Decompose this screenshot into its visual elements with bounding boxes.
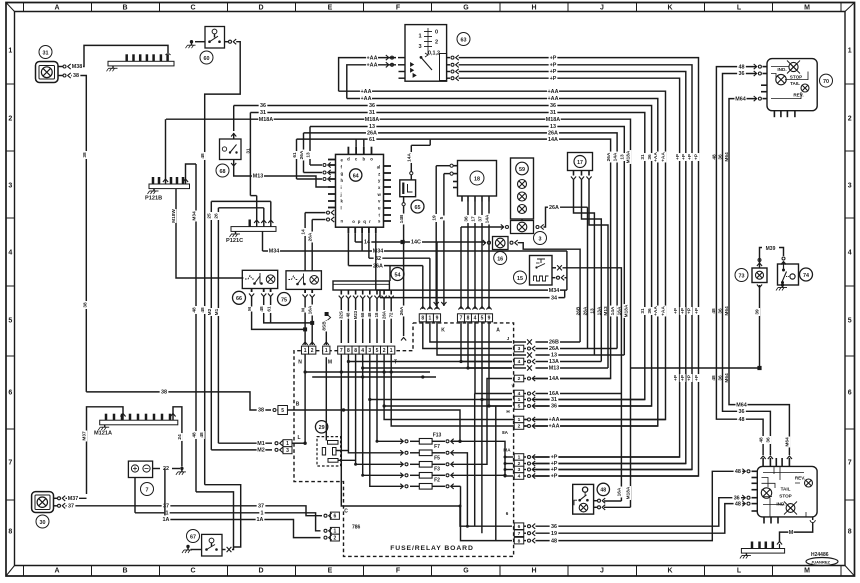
wire M39 bracket	[760, 248, 763, 263]
svg-text:M2: M2	[207, 308, 213, 315]
svg-text:M34: M34	[192, 211, 198, 221]
bar 54 riser to 26A	[389, 266, 391, 281]
board internal fuse outputs	[451, 453, 467, 526]
connector 64 right pins	[384, 165, 392, 167]
svg-text:38: 38	[258, 408, 264, 414]
svg-text:4: 4	[848, 249, 852, 256]
svg-text:48: 48	[200, 153, 206, 159]
wire from board connector 1 to M1 junction	[304, 354, 306, 443]
cluster 69 bottom pins	[763, 517, 765, 524]
board connector B (5)	[278, 406, 288, 415]
svg-text:N: N	[298, 360, 302, 366]
svg-text:M2: M2	[257, 448, 265, 454]
svg-text:2: 2	[518, 376, 521, 382]
svg-text:u: u	[378, 206, 381, 211]
svg-text:B: B	[122, 5, 127, 12]
ignition switch 63 pins	[398, 57, 405, 59]
wire to board connector M1	[325, 312, 329, 316]
wire 48 from switch 60 long vertical	[205, 42, 241, 485]
svg-text:o: o	[370, 157, 373, 162]
svg-text:38: 38	[73, 73, 79, 79]
cluster 70 pins	[763, 66, 768, 68]
svg-text:65: 65	[415, 205, 421, 211]
svg-text:6: 6	[8, 389, 12, 396]
svg-text:B: B	[122, 567, 127, 574]
svg-text:+P: +P	[694, 153, 700, 160]
svg-text:39: 39	[755, 309, 761, 315]
svg-text:8: 8	[354, 348, 357, 354]
vertical 26A from lamp 3	[587, 207, 589, 348]
svg-text:M64: M64	[785, 437, 791, 447]
svg-text:26A: 26A	[399, 306, 405, 315]
svg-text:+P: +P	[681, 153, 687, 160]
svg-text:68: 68	[220, 169, 226, 175]
wires from verticals to switch 67	[196, 492, 234, 550]
svg-text:68: 68	[360, 312, 365, 317]
svg-text:+P: +P	[675, 153, 681, 160]
rear lamp cluster 69	[757, 466, 817, 517]
svg-text:E: E	[328, 567, 333, 574]
svg-text:JUANREZ: JUANREZ	[811, 559, 830, 564]
svg-text:d: d	[347, 157, 350, 162]
svg-text:+AA: +AA	[653, 306, 659, 316]
svg-text:M34: M34	[269, 249, 280, 255]
svg-text:1: 1	[429, 316, 432, 322]
fuse F2	[405, 485, 408, 488]
bus +AA2	[347, 99, 658, 427]
right bundle rotated labels top	[606, 152, 612, 163]
svg-text:48: 48	[739, 64, 745, 70]
ground bar P121C	[231, 227, 276, 232]
svg-text:3: 3	[518, 346, 521, 352]
svg-text:48: 48	[259, 306, 265, 312]
rear lamp cluster 70	[767, 59, 817, 111]
svg-text:M18A: M18A	[625, 486, 631, 499]
wire 14 / 14C to lamp 16	[354, 233, 356, 242]
wire 34	[380, 297, 565, 299]
board right connector rows	[514, 341, 526, 343]
svg-text:C: C	[344, 509, 348, 515]
svg-text:60: 60	[204, 56, 210, 62]
svg-text:M13: M13	[549, 366, 560, 372]
svg-text:36: 36	[739, 409, 745, 415]
lamp 31 (side repeater)	[39, 46, 52, 59]
svg-text:F2: F2	[434, 478, 440, 484]
wire M18W from P121B	[176, 189, 243, 278]
wires to cluster 69 left pins	[536, 471, 746, 540]
svg-text:+P: +P	[680, 374, 686, 381]
board top connectors row K/A	[419, 314, 426, 322]
wire 36 right	[723, 74, 771, 456]
svg-text:26: 26	[214, 213, 220, 219]
svg-text:F: F	[396, 5, 401, 12]
bus 13	[310, 127, 624, 356]
svg-text:1: 1	[390, 348, 393, 354]
svg-text:31: 31	[640, 308, 646, 314]
svg-text:37: 37	[68, 504, 74, 510]
svg-text:+P: +P	[687, 153, 693, 160]
board internal verticals right	[474, 394, 476, 527]
connector 64 (instrument cluster)	[336, 154, 384, 227]
ground bar P121B	[149, 184, 190, 189]
ground bar M121A	[100, 420, 178, 425]
svg-text:P121C: P121C	[226, 238, 243, 244]
svg-text:26A: 26A	[373, 263, 383, 269]
svg-text:7: 7	[146, 487, 149, 493]
svg-text:+P: +P	[673, 374, 679, 381]
svg-text:6: 6	[334, 514, 337, 520]
svg-text:7: 7	[848, 459, 852, 466]
wire M64 right	[729, 99, 789, 455]
svg-text:+P: +P	[687, 374, 693, 381]
right bundle rotated labels middle	[575, 306, 581, 317]
board top connectors row N/M/T	[301, 346, 308, 354]
svg-text:+AA: +AA	[361, 89, 372, 95]
svg-text:64: 64	[353, 173, 359, 179]
svg-text:FUSE/RELAY BOARD: FUSE/RELAY BOARD	[390, 545, 474, 552]
svg-text:1: 1	[334, 529, 337, 535]
board internal wiring	[348, 354, 400, 453]
svg-text:786: 786	[352, 524, 361, 530]
svg-text:37: 37	[478, 216, 484, 222]
svg-text:M37: M37	[68, 496, 79, 502]
svg-text:M34: M34	[549, 288, 560, 294]
connector 17	[568, 153, 593, 171]
right bundle rotated labels lower	[673, 374, 679, 382]
svg-text:2: 2	[311, 348, 314, 354]
svg-text:M18A: M18A	[365, 117, 379, 123]
bus M18A	[166, 119, 631, 507]
svg-text:REV.: REV.	[793, 92, 803, 97]
svg-text:70: 70	[823, 79, 829, 85]
svg-text:G: G	[463, 567, 469, 574]
connector bar 54	[391, 268, 404, 281]
svg-text:h: h	[341, 178, 344, 183]
svg-text:36: 36	[647, 308, 653, 314]
svg-text:37: 37	[163, 504, 169, 510]
svg-text:7: 7	[518, 531, 521, 537]
svg-text:16: 16	[497, 256, 503, 262]
svg-text:+P: +P	[550, 76, 557, 82]
svg-text:14A: 14A	[548, 137, 558, 143]
svg-text:2: 2	[383, 348, 386, 354]
relay 66	[242, 270, 277, 288]
svg-text:M: M	[804, 567, 810, 574]
svg-text:25: 25	[207, 213, 213, 219]
svg-text:p: p	[358, 219, 361, 224]
svg-text:STOP: STOP	[779, 494, 791, 499]
svg-text:18: 18	[474, 176, 480, 182]
svg-text:0,1,2: 0,1,2	[428, 51, 440, 57]
svg-text:61: 61	[266, 306, 272, 312]
svg-text:q: q	[363, 219, 366, 224]
svg-text:+AA: +AA	[548, 89, 559, 95]
svg-text:3: 3	[418, 44, 421, 50]
svg-text:8: 8	[467, 316, 470, 322]
svg-text:36: 36	[766, 437, 772, 443]
wire M38 to ground bar	[71, 45, 168, 66]
wire 1A	[165, 520, 321, 538]
svg-text:48: 48	[735, 469, 741, 475]
svg-text:13: 13	[620, 154, 626, 160]
board wire from connector B	[288, 410, 461, 441]
svg-text:+P: +P	[680, 307, 686, 314]
svg-text:l: l	[341, 205, 342, 210]
svg-text:b: b	[362, 157, 365, 162]
svg-text:M: M	[804, 5, 810, 12]
wire 14A riser from diode 65 to bus 61	[410, 175, 412, 180]
board internal fan-out to right rows	[363, 367, 512, 369]
relay 29	[315, 421, 327, 433]
svg-text:C: C	[190, 5, 195, 12]
switch 68 (D2)	[220, 139, 242, 160]
svg-text:37: 37	[258, 504, 264, 510]
svg-text:M39: M39	[766, 246, 776, 252]
svg-text:1: 1	[418, 34, 421, 40]
svg-text:M18A: M18A	[626, 150, 632, 163]
svg-text:48: 48	[600, 488, 606, 494]
svg-text:1: 1	[848, 47, 852, 54]
svg-text:E: E	[328, 5, 333, 12]
switch 48 (reverse light sw)	[573, 484, 594, 514]
svg-text:F13: F13	[433, 433, 442, 439]
svg-text:7: 7	[8, 459, 12, 466]
svg-text:8: 8	[518, 538, 521, 544]
svg-text:30: 30	[40, 520, 46, 526]
svg-text:36: 36	[369, 103, 375, 109]
svg-text:48: 48	[191, 432, 197, 438]
svg-text:1A: 1A	[257, 517, 264, 523]
svg-text:26A: 26A	[549, 205, 559, 211]
svg-text:j: j	[340, 192, 342, 197]
svg-text:+AA: +AA	[653, 152, 659, 162]
lamp 30 (licence plate)	[32, 492, 54, 513]
svg-text:14A: 14A	[610, 306, 616, 315]
svg-text:5: 5	[376, 348, 379, 354]
svg-text:8: 8	[8, 528, 12, 535]
svg-text:63: 63	[461, 37, 467, 43]
board +P feed	[451, 441, 505, 476]
svg-text:38: 38	[82, 152, 88, 158]
svg-text:M18A: M18A	[546, 117, 560, 123]
svg-text:+AA: +AA	[548, 96, 559, 102]
svg-text:36: 36	[551, 404, 557, 410]
bus +P4	[459, 78, 680, 457]
M121A left riser	[122, 412, 124, 420]
svg-text:n: n	[341, 218, 344, 223]
svg-text:1: 1	[304, 348, 307, 354]
relay 66 pins	[251, 289, 253, 293]
wire M1 vertical to connector 1	[217, 208, 219, 443]
labels bottom right corner wires	[735, 401, 747, 407]
svg-text:1: 1	[325, 348, 328, 354]
svg-text:TAIL: TAIL	[790, 81, 800, 86]
svg-text:17: 17	[471, 216, 477, 222]
svg-text:36: 36	[739, 71, 745, 77]
svg-text:14A: 14A	[485, 214, 491, 223]
svg-text:48: 48	[346, 312, 351, 317]
svg-text:74: 74	[803, 273, 809, 279]
wire 39 from lamp 73	[759, 285, 761, 368]
wire 48 right	[716, 67, 763, 455]
wire M34 lower run	[566, 251, 568, 290]
wire M34	[361, 233, 363, 251]
bus +AA1	[339, 91, 666, 419]
svg-text:IND.: IND.	[777, 67, 786, 72]
svg-text:M: M	[301, 308, 307, 312]
wire 38 long vertical	[71, 76, 86, 392]
svg-text:1: 1	[286, 441, 289, 447]
svg-text:MA: MA	[503, 448, 511, 453]
wire +AA upper pair to switch 63	[339, 58, 396, 92]
svg-text:17: 17	[577, 160, 583, 166]
svg-text:+P: +P	[694, 374, 700, 381]
svg-text:8: 8	[421, 316, 424, 322]
svg-text:13: 13	[306, 152, 312, 158]
svg-text:5: 5	[8, 317, 12, 324]
svg-text:B: B	[296, 402, 300, 408]
svg-text:P121B: P121B	[145, 196, 162, 202]
relay 18 bottom pins	[461, 196, 463, 202]
svg-text:al: al	[377, 164, 381, 169]
svg-text:48: 48	[759, 437, 765, 443]
svg-text:H: H	[531, 5, 536, 12]
svg-text:73: 73	[739, 273, 745, 279]
svg-text:2: 2	[8, 115, 12, 122]
battery unit 7	[128, 461, 152, 477]
bus +P3	[459, 72, 686, 464]
svg-text:29: 29	[319, 425, 325, 431]
fuse F13	[405, 440, 408, 443]
svg-text:6: 6	[848, 389, 852, 396]
svg-text:3: 3	[368, 348, 371, 354]
svg-text:K: K	[667, 5, 672, 12]
svg-text:4: 4	[518, 359, 521, 365]
svg-text:A: A	[496, 328, 500, 334]
svg-text:+AA: +AA	[549, 424, 560, 430]
svg-text:L: L	[297, 435, 300, 441]
svg-text:38: 38	[83, 302, 89, 308]
svg-text:19: 19	[551, 531, 557, 537]
svg-text:22: 22	[163, 466, 169, 472]
svg-text:+P: +P	[673, 307, 679, 314]
relay 75	[286, 271, 321, 290]
svg-text:M: M	[789, 530, 794, 536]
svg-text:26A: 26A	[299, 150, 305, 159]
wire M13 from switch 68 to connector 64	[234, 167, 328, 188]
diode box 65	[400, 180, 416, 197]
svg-text:34: 34	[551, 295, 557, 301]
svg-text:+P: +P	[687, 307, 693, 314]
ground bar bottom right	[741, 549, 784, 554]
svg-text:REV.: REV.	[795, 476, 805, 481]
wire 14B arrow into board	[401, 338, 406, 341]
svg-text:4: 4	[8, 249, 12, 256]
fuse F5	[405, 463, 408, 466]
svg-text:31: 31	[43, 50, 49, 56]
svg-text:L: L	[737, 5, 742, 12]
fuse F3	[405, 474, 408, 477]
wire 22 to ground	[153, 468, 160, 470]
svg-text:3: 3	[8, 182, 12, 189]
wire 14 drop to board	[436, 242, 438, 309]
svg-text:14B: 14B	[399, 214, 405, 223]
svg-text:+AA: +AA	[661, 306, 667, 316]
svg-text:+AA: +AA	[367, 55, 378, 61]
P121C riser links	[256, 196, 258, 227]
svg-text:H: H	[531, 567, 536, 574]
fuse/relay board outline	[294, 323, 514, 557]
svg-text:5: 5	[848, 317, 852, 324]
wire 38 bottom run to connector B	[86, 392, 271, 410]
svg-text:16A: 16A	[308, 305, 314, 314]
svg-text:3: 3	[848, 182, 852, 189]
svg-text:7: 7	[460, 316, 463, 322]
svg-text:M121A: M121A	[94, 431, 112, 437]
svg-text:59: 59	[519, 167, 525, 173]
bus drops to connector 64 left pins	[309, 127, 311, 166]
svg-text:36: 36	[464, 216, 470, 222]
svg-text:T: T	[394, 360, 397, 366]
cluster 70 internal wires	[771, 67, 808, 99]
svg-text:38: 38	[161, 390, 167, 396]
svg-text:32S: 32S	[338, 311, 343, 319]
svg-text:72: 72	[388, 312, 393, 317]
svg-text:TAIL: TAIL	[781, 487, 791, 492]
svg-text:61: 61	[292, 152, 298, 158]
svg-text:4: 4	[361, 348, 364, 354]
wire 26A to board	[347, 233, 349, 265]
svg-text:g: g	[341, 171, 344, 176]
svg-text:F3: F3	[434, 467, 440, 473]
svg-text:J: J	[600, 567, 604, 574]
svg-text:4: 4	[474, 316, 477, 322]
wire 26A from connector 64 to relay 75	[312, 219, 325, 221]
bus 31	[250, 113, 644, 400]
svg-text:14C: 14C	[411, 240, 421, 246]
svg-text:F: F	[396, 567, 401, 574]
svg-text:48: 48	[200, 307, 206, 313]
svg-text:8SB: 8SB	[322, 321, 328, 331]
bus 61 / 14A	[297, 139, 611, 378]
svg-text:6: 6	[506, 511, 509, 516]
label wires to right rows	[536, 341, 581, 343]
svg-text:14A: 14A	[612, 152, 618, 161]
svg-text:F5: F5	[434, 456, 440, 462]
svg-text:3: 3	[286, 448, 289, 454]
svg-text:36: 36	[260, 103, 266, 109]
svg-text:2: 2	[518, 424, 521, 430]
svg-text:54: 54	[395, 272, 401, 278]
svg-text:D: D	[258, 567, 263, 574]
bus 36	[234, 106, 652, 407]
svg-text:i: i	[341, 185, 342, 190]
cluster 69 top pins	[762, 458, 764, 466]
svg-text:48: 48	[367, 312, 372, 317]
svg-text:26A: 26A	[308, 232, 314, 241]
svg-text:9: 9	[436, 316, 439, 322]
svg-text:26A: 26A	[381, 311, 386, 319]
svg-text:M34: M34	[373, 249, 384, 255]
switch 60 (handbrake)	[190, 40, 193, 43]
cluster 69 internal wires	[762, 466, 807, 517]
cluster 69 left pins	[752, 470, 758, 472]
svg-text:M13: M13	[253, 174, 264, 180]
svg-text:+AA: +AA	[661, 152, 667, 162]
M121A right riser wire 24	[172, 412, 174, 420]
svg-text:8: 8	[347, 348, 350, 354]
connector 64 left pins	[328, 159, 336, 161]
